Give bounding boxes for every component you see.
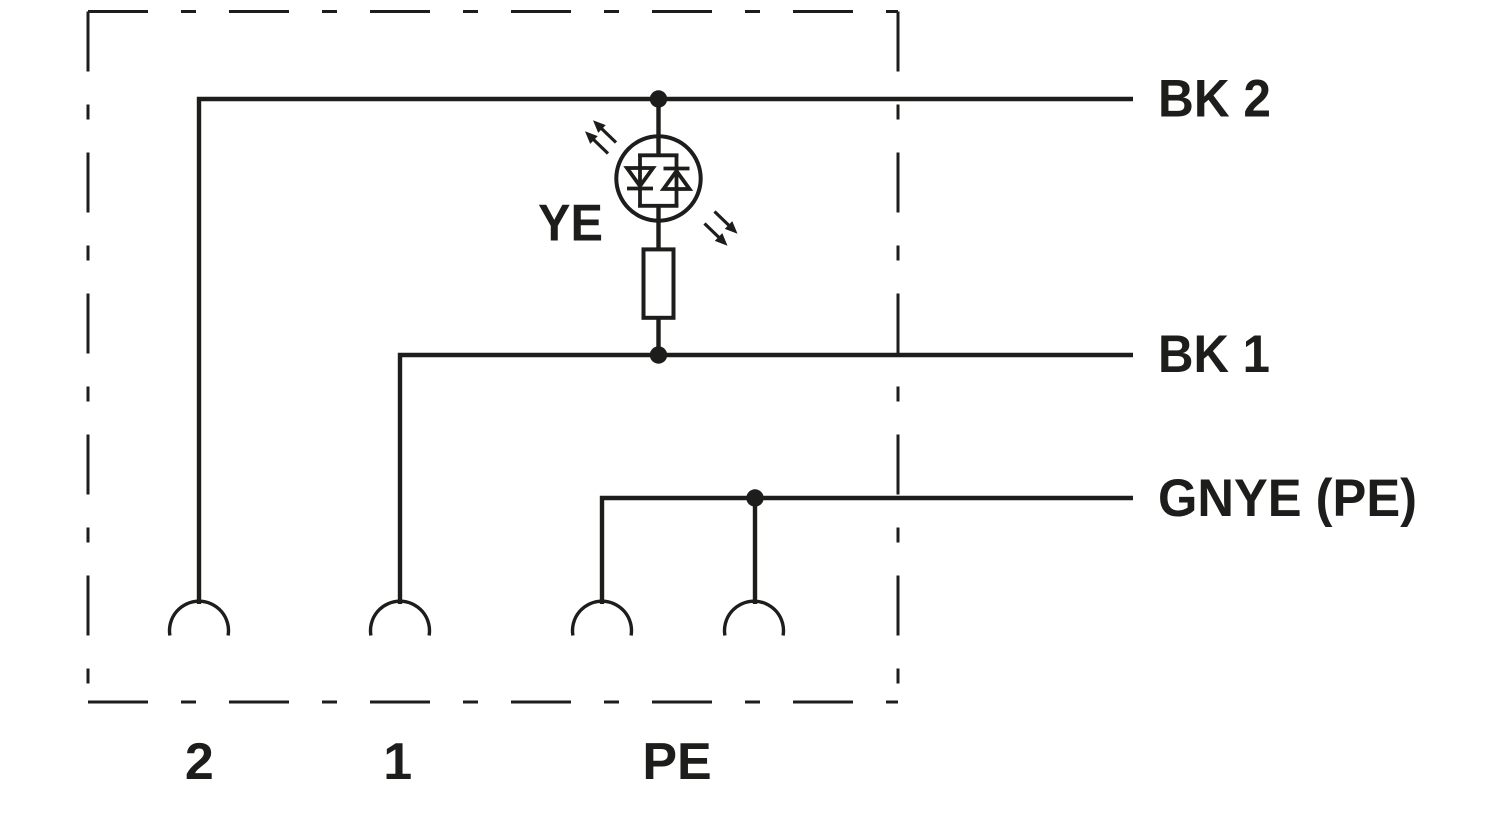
svg-text:GNYE (PE): GNYE (PE)	[1158, 469, 1417, 528]
svg-text:BK 2: BK 2	[1158, 70, 1271, 129]
svg-text:YE: YE	[538, 195, 603, 253]
svg-text:PE: PE	[642, 733, 711, 791]
svg-text:1: 1	[383, 733, 412, 791]
svg-text:2: 2	[185, 733, 214, 791]
svg-text:BK 1: BK 1	[1158, 325, 1270, 384]
